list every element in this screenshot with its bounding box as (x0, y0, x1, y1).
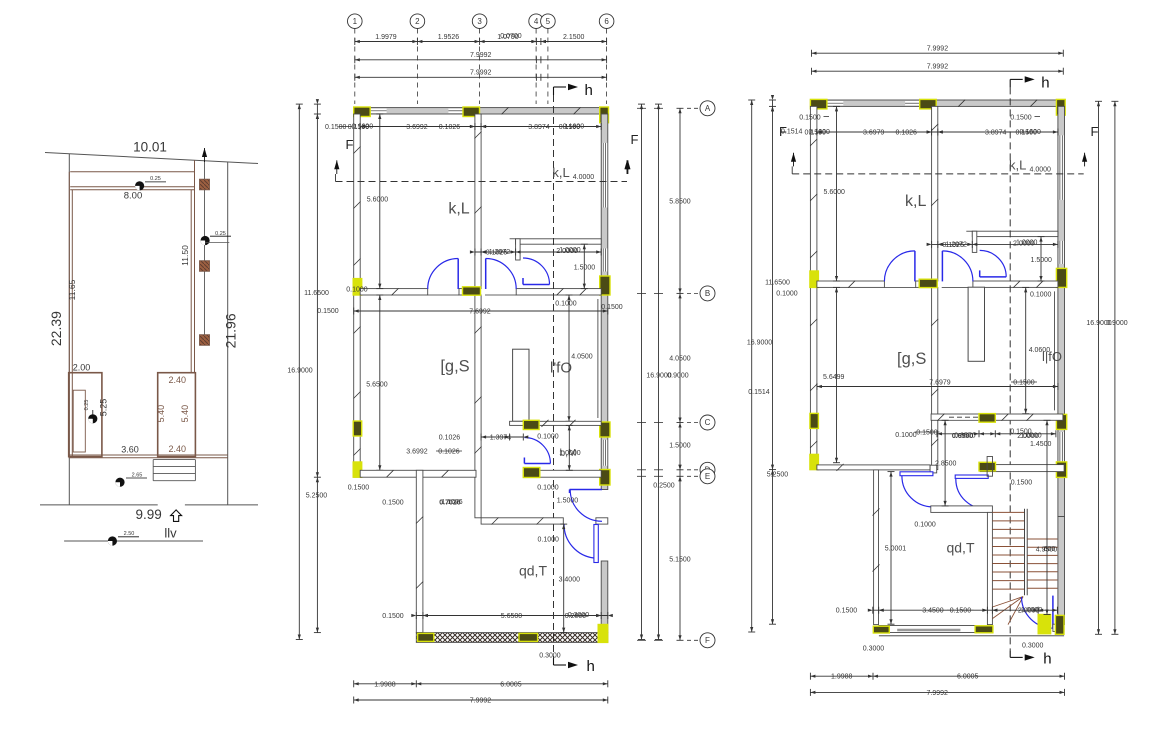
svg-text:F: F (346, 137, 354, 152)
door D2 leaf (485, 259, 487, 290)
stairs right rail (1024, 509, 1026, 596)
outer wall right (1058, 106, 1065, 516)
svg-text:7.9992: 7.9992 (470, 70, 492, 77)
door D3 leaf (980, 276, 1007, 278)
bottom block mid (519, 633, 538, 641)
hatches top wall (502, 107, 509, 114)
svg-text:0.3000: 0.3000 (863, 646, 885, 653)
column block right-D (1056, 462, 1066, 478)
door B leaf (955, 475, 988, 478)
svg-text:3.6992: 3.6992 (406, 449, 428, 456)
site boundary right (227, 162, 229, 505)
wall B row segments (817, 281, 885, 287)
svg-text:5.1500: 5.1500 (669, 557, 691, 564)
outer wall right (601, 114, 608, 490)
svg-text:1.2972: 1.2972 (489, 249, 511, 256)
bottom dim row 1 (810, 675, 1064, 677)
interior wall col3 lower (932, 287, 938, 469)
svg-text:0.1500: 0.1500 (317, 308, 339, 315)
window right C-D (1059, 432, 1064, 474)
outer wall left (354, 114, 361, 477)
setback band line (70, 171, 194, 173)
svg-text:0.1000: 0.1000 (555, 301, 577, 308)
right plan top dim a (812, 52, 1064, 54)
site boundary bottom right segment (185, 504, 258, 506)
benchmark room (88, 414, 97, 423)
chimney rect (513, 349, 529, 421)
svg-text:5: 5 (546, 17, 551, 26)
stub wall below C (987, 457, 992, 477)
svg-text:0.1000: 0.1000 (346, 287, 368, 294)
svg-text:9.99: 9.99 (135, 507, 161, 522)
upper bathroom hook (972, 231, 977, 252)
svg-text:5.6000: 5.6000 (367, 197, 389, 204)
vdim bathroom 0.1000s (568, 425, 570, 470)
svg-text:7.9992: 7.9992 (927, 64, 949, 71)
level dashed line (336, 181, 628, 183)
column block right-D (600, 470, 610, 486)
stairs left wall (987, 512, 992, 624)
step wall horizontal D (360, 470, 476, 477)
C wall block (979, 414, 995, 423)
svg-text:0.1000: 0.1000 (776, 291, 798, 298)
interior wall col3 upper (932, 106, 938, 281)
column block top-left (354, 107, 371, 117)
svg-text:0.1500: 0.1500 (836, 608, 858, 615)
stairs right flight (1027, 538, 1057, 540)
right column arrow (624, 160, 629, 169)
section marker h bottom (1009, 650, 1011, 657)
svg-text:10.01: 10.01 (133, 140, 167, 155)
svg-text:0.1600: 0.1600 (352, 123, 374, 130)
svg-text:0.1000: 0.1000 (895, 432, 917, 439)
svg-text:F: F (705, 636, 710, 645)
left dim column (298, 104, 300, 639)
svg-text:C: C (705, 418, 711, 427)
grid bubbles top (348, 14, 363, 29)
svg-text:1.0000: 1.0000 (1016, 240, 1038, 247)
svg-text:0.1026: 0.1026 (439, 124, 461, 131)
block at qd wall foot (873, 626, 889, 633)
svg-text:5.40: 5.40 (156, 405, 166, 423)
wall D left segment (817, 465, 930, 470)
site boundary slanted top line (45, 153, 258, 164)
right floor plan (747, 46, 1128, 697)
upper door arc near E (570, 490, 602, 522)
column block left-B (810, 271, 819, 287)
svg-text:qd,T: qd,T (519, 563, 547, 579)
svg-text:0.1000: 0.1000 (914, 522, 936, 529)
svg-text:1.9526: 1.9526 (438, 34, 460, 41)
svg-text:0.1500: 0.1500 (799, 115, 821, 122)
C wall right plan (931, 414, 1063, 420)
svg-text:h: h (587, 658, 595, 675)
chimney rect (968, 287, 984, 361)
grid bubbles right (687, 107, 699, 109)
col3 wall step bottom (930, 465, 937, 473)
upper bathroom top wall (972, 231, 1058, 236)
right plan top dim b (812, 70, 1064, 72)
bottom block olive (975, 626, 993, 633)
svg-text:2.40: 2.40 (169, 444, 187, 454)
right plan right dim column (1098, 101, 1100, 634)
svg-text:3: 3 (477, 17, 482, 26)
top inner dim row (817, 131, 1058, 133)
entry door arc (1022, 597, 1053, 628)
svg-text:0.0700: 0.0700 (500, 33, 522, 40)
svg-text:[g,S: [g,S (440, 358, 469, 376)
door D3 arc (523, 258, 550, 285)
column block left-D (353, 462, 362, 477)
svg-text:k,L: k,L (552, 165, 569, 180)
svg-text:0.1500: 0.1500 (382, 500, 404, 507)
section arrow right (1082, 153, 1087, 162)
top dim row segments (355, 41, 607, 43)
benchmark right (201, 236, 210, 245)
svg-text:7.6979: 7.6979 (929, 380, 951, 387)
svg-text:E: E (705, 472, 710, 481)
svg-text:2.00: 2.00 (73, 363, 91, 373)
window top-mid (905, 101, 920, 105)
svg-text:11.6500: 11.6500 (304, 290, 329, 297)
column block left-C (810, 413, 819, 428)
svg-text:6.0005: 6.0005 (957, 674, 979, 681)
extension line right of 4.0500 (1054, 291, 1056, 410)
section marker h bottom (553, 658, 555, 665)
svg-text:2.40: 2.40 (169, 375, 187, 385)
bottom dim row 2 (354, 699, 608, 701)
step wall vertical right plan (874, 470, 879, 625)
svg-text:1.5000: 1.5000 (574, 265, 596, 272)
window top-mid (448, 109, 463, 113)
svg-text:0.1500: 0.1500 (348, 485, 370, 492)
bottom wall right plan (879, 626, 975, 633)
benchmark top (135, 181, 144, 190)
svg-text:0.1500: 0.1500 (1013, 380, 1035, 387)
bathroom C wall (510, 421, 602, 425)
bottom inner dim 5.6500 row (416, 615, 608, 617)
building left wall (68, 172, 70, 457)
svg-text:1.9988: 1.9988 (374, 681, 396, 688)
vdim 1.5000 upper bath (583, 244, 585, 288)
door thresholds B (884, 286, 915, 288)
step wall vertical (416, 470, 423, 632)
interior wall col3 upper (475, 114, 481, 289)
svg-text:A: A (705, 104, 711, 113)
site plan group (40, 140, 258, 546)
svg-text:5.2500: 5.2500 (767, 472, 789, 479)
svg-text:3.4500: 3.4500 (922, 608, 944, 615)
column block right-B (600, 276, 610, 295)
outer wall top (810, 100, 1064, 106)
column block left-B (353, 279, 362, 295)
door B arc (956, 479, 988, 509)
svg-text:0.1500: 0.1500 (1011, 480, 1033, 487)
svg-text:7.9992: 7.9992 (470, 52, 492, 59)
column block left-D (810, 454, 819, 469)
svg-text:2.65: 2.65 (132, 472, 143, 478)
vdim 4.0500 (1025, 287, 1027, 413)
svg-text:0.1000: 0.1000 (537, 485, 559, 492)
svg-text:1.5000: 1.5000 (669, 443, 691, 450)
bottom closing line (879, 635, 1064, 637)
svg-text:4.0500: 4.0500 (571, 354, 593, 361)
door A arc (902, 476, 933, 507)
svg-text:5.25: 5.25 (99, 399, 109, 417)
column block top-mid (920, 99, 937, 109)
svg-text:llv: llv (164, 526, 177, 541)
svg-text:0.3000: 0.3000 (539, 653, 561, 660)
section arrow left (334, 160, 339, 169)
svg-text:11.50: 11.50 (180, 245, 190, 266)
column square 1 (200, 179, 210, 190)
stairs upper flight (992, 511, 1024, 513)
building right wall (190, 190, 192, 373)
upper bath dim row (475, 251, 601, 253)
bottom dim row 2 (810, 691, 1064, 693)
svg-text:4: 4 (534, 17, 539, 26)
block D right plan (979, 462, 996, 471)
svg-text:21.96: 21.96 (223, 313, 239, 348)
svg-text:5.6499: 5.6499 (823, 374, 845, 381)
qd room top wall (481, 518, 563, 524)
building bottom wall (69, 454, 228, 456)
door D1 arc (428, 259, 459, 290)
door D3 leaf (523, 284, 550, 286)
vdim 5.6000 (379, 114, 381, 289)
svg-text:5.8500: 5.8500 (669, 199, 691, 206)
section arrow left (791, 153, 796, 162)
svg-text:7.9992: 7.9992 (926, 690, 948, 697)
level dashed line (792, 173, 1083, 175)
section h dashed vertical (1009, 87, 1011, 650)
svg-text:k,L: k,L (448, 201, 469, 218)
svg-text:0.1500: 0.1500 (1010, 115, 1032, 122)
svg-text:1.9988: 1.9988 (831, 674, 853, 681)
door thresholds B (428, 294, 459, 296)
svg-text:3.8974: 3.8974 (528, 124, 550, 131)
door A leaf (900, 472, 933, 476)
door D2 leaf (941, 251, 943, 282)
svg-text:4.0000: 4.0000 (1029, 166, 1051, 173)
column block B-mid (463, 287, 481, 295)
svg-text:5.6500: 5.6500 (501, 613, 523, 620)
svg-text:600: 600 (1044, 546, 1056, 553)
stairs top wall (931, 506, 993, 513)
column square 3 (200, 335, 210, 346)
site boundary left (68, 154, 70, 505)
svg-text:0.1514: 0.1514 (781, 129, 803, 136)
svg-text:0.3000: 0.3000 (568, 612, 590, 619)
lower bath dim row (481, 436, 523, 438)
window right bath (602, 248, 607, 271)
vdim 5.6000 (836, 106, 838, 281)
column block B-mid (919, 279, 937, 287)
column block right-C (600, 422, 610, 437)
svg-text:8.00: 8.00 (124, 191, 143, 202)
middle floor plan (287, 14, 715, 705)
svg-text:5.6000: 5.6000 (823, 189, 845, 196)
right plan left dim column (751, 100, 753, 632)
door D1 arc (884, 251, 915, 282)
column block right-B (1056, 268, 1066, 287)
dim row 7.6979 (817, 386, 1058, 388)
right dim column (641, 104, 643, 639)
svg-text:0.9000: 0.9000 (667, 373, 689, 380)
svg-text:16.9000: 16.9000 (747, 340, 772, 347)
svg-text:2.1500: 2.1500 (563, 34, 585, 41)
inner room left (69, 373, 102, 457)
svg-text:1.3974: 1.3974 (490, 435, 512, 442)
svg-text:1.5000: 1.5000 (1030, 257, 1052, 264)
svg-text:11.6500: 11.6500 (765, 280, 790, 287)
svg-text:h: h (1041, 74, 1049, 91)
door D4 arc (564, 524, 594, 558)
svg-text:0.1026: 0.1026 (439, 435, 461, 442)
svg-text:3.60: 3.60 (121, 445, 139, 455)
outer wall right below door D4 (601, 561, 608, 633)
svg-text:0.1500: 0.1500 (916, 430, 938, 437)
outer wall right lower segment (1058, 517, 1065, 625)
svg-text:5.40: 5.40 (180, 405, 190, 423)
bottom wall crosshatch (416, 633, 608, 643)
svg-text:1.4500: 1.4500 (1030, 441, 1052, 448)
column block top-mid (463, 107, 480, 117)
svg-text:0.1500: 0.1500 (1010, 428, 1032, 435)
vdim 5.0001 (890, 472, 892, 625)
door D4 leaf (594, 525, 598, 563)
bottom dim row 1 (354, 683, 608, 685)
svg-text:0.25: 0.25 (215, 231, 226, 237)
vdim 5.65 (836, 287, 838, 462)
dim row y433 right plan (937, 433, 1056, 435)
svg-text:1.0000: 1.0000 (559, 450, 581, 457)
vdim 4.0500 (568, 295, 570, 421)
svg-text:7.9992: 7.9992 (470, 698, 492, 705)
svg-text:F: F (1091, 124, 1099, 139)
svg-text:22.39: 22.39 (48, 311, 64, 346)
column line right strip (204, 160, 206, 345)
svg-text:1: 1 (353, 17, 358, 26)
entry door leaf (1052, 596, 1054, 629)
svg-text:1.5000: 1.5000 (557, 498, 579, 505)
svg-text:2.8500: 2.8500 (935, 461, 957, 468)
dim row y610 right plan (873, 609, 1058, 611)
svg-text:1.0000: 1.0000 (559, 247, 581, 254)
svg-text:0.25: 0.25 (150, 176, 161, 182)
svg-text:0.1026: 0.1026 (895, 130, 917, 137)
svg-text:4.0500: 4.0500 (669, 356, 691, 363)
svg-text:1.9979: 1.9979 (375, 34, 397, 41)
top dim 7.9992 b (355, 76, 607, 78)
wall B row segments (360, 289, 428, 295)
svg-text:0.2500: 0.2500 (653, 483, 675, 490)
svg-text:5.6500: 5.6500 (366, 382, 388, 389)
window right bath (1059, 241, 1064, 264)
vdim 2.8500 (944, 420, 946, 506)
svg-text:4.0600: 4.0600 (1029, 347, 1051, 354)
svg-text:3.6979: 3.6979 (863, 130, 885, 137)
svg-text:F: F (631, 132, 639, 147)
svg-text:B: B (705, 289, 710, 298)
benchmark line bottom (64, 540, 203, 542)
door D5 arc (524, 438, 550, 464)
svg-text:[g,S: [g,S (897, 350, 926, 368)
door D2 arc (942, 251, 973, 282)
door D2 arc (486, 259, 517, 290)
svg-text:0.8570: 0.8570 (954, 432, 976, 439)
svg-text:2: 2 (415, 17, 420, 26)
svg-text:3.4000: 3.4000 (559, 577, 581, 584)
column block right-C (1056, 414, 1066, 429)
section arrow right (625, 160, 630, 169)
window right C-D (602, 440, 607, 466)
dim row 7.6992 (354, 310, 608, 312)
svg-text:qd,T: qd,T (946, 540, 974, 556)
top dim 7.9992 a (355, 59, 607, 61)
door D1 leaf (914, 251, 916, 282)
hatches top wall (958, 100, 965, 107)
wall D right segment (980, 465, 1064, 472)
upper bathroom top wall (516, 239, 602, 244)
svg-text:11.65: 11.65 (67, 279, 77, 300)
svg-text:3.6992: 3.6992 (406, 124, 428, 131)
column block top-right (1056, 99, 1065, 115)
top inner dim row (360, 126, 601, 128)
svg-text:1.1026: 1.1026 (441, 499, 463, 506)
svg-text:0.1600: 0.1600 (808, 129, 830, 136)
site stairs (153, 459, 195, 461)
door D5 leaf (524, 463, 550, 465)
svg-text:5.2500: 5.2500 (306, 493, 328, 500)
window right A-B (602, 143, 607, 208)
window top-left (370, 109, 386, 113)
svg-text:0.1500: 0.1500 (325, 124, 347, 131)
vdim 3.4000 (563, 524, 565, 633)
svg-text:2.50: 2.50 (124, 531, 135, 537)
svg-text:k,L: k,L (1009, 157, 1026, 172)
upper bath dim row (932, 243, 1058, 245)
svg-text:3.8974: 3.8974 (985, 130, 1007, 137)
section marker h top (1009, 79, 1011, 87)
entry arrow glyph (171, 510, 182, 522)
north arrow site (202, 148, 207, 157)
wall D bathroom segment (523, 470, 601, 477)
bottom yellow block entrance (1038, 615, 1050, 634)
upper door leaf near E (569, 490, 571, 494)
column block top-right (600, 107, 609, 123)
door D1 leaf (457, 259, 459, 290)
outer wall left (810, 106, 817, 469)
svg-text:0.1500: 0.1500 (950, 608, 972, 615)
svg-text:0.3000: 0.3000 (1022, 643, 1044, 650)
vdim 5.65 (379, 295, 381, 470)
svg-text:7.6992: 7.6992 (469, 309, 491, 316)
svg-text:0.1500: 0.1500 (601, 304, 623, 311)
door D3 arc (980, 250, 1007, 277)
interior wall col3 lower (475, 295, 481, 518)
svg-text:5.0001: 5.0001 (885, 546, 907, 553)
stairs winders (992, 597, 1023, 607)
upper bathroom hook (516, 239, 521, 260)
vdim 4.9500 (1046, 420, 1048, 614)
site boundary bottom left segment (40, 504, 158, 506)
svg-text:0.1000: 0.1000 (537, 537, 559, 544)
bathroom C block (523, 420, 539, 429)
svg-text:7.9992: 7.9992 (927, 46, 949, 53)
building top wall (70, 186, 194, 188)
column square 2 (200, 261, 210, 272)
